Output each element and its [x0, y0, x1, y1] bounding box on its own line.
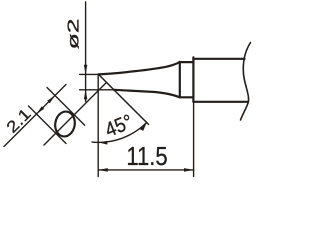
- arrow o2 top (down): [84, 65, 88, 75]
- arrow 11.5 left: [98, 168, 108, 172]
- svg-text:2.1: 2.1: [3, 105, 35, 137]
- right extension (barrel edge down): [193, 102, 195, 177]
- arrow 11.5 right: [184, 168, 194, 172]
- svg-text:45°: 45°: [102, 110, 136, 142]
- barrel bottom edge: [193, 101, 247, 103]
- svg-text:11.5: 11.5: [126, 142, 167, 171]
- arrow 2.1 lower (pointing SW, tip at tick SW): [37, 106, 45, 114]
- tick NE: [47, 88, 85, 126]
- arrow o2 bottom (up): [84, 90, 88, 100]
- arrow 2.1 upper (pointing NE, tip at tick NE): [47, 96, 55, 104]
- ellipse (bevel face): [53, 110, 76, 138]
- face axis line: [44, 82, 107, 145]
- arrow arc right (at bevel line): [140, 122, 147, 130]
- ferrule ring: [180, 62, 194, 97]
- arrow arc left (at vertical): [98, 141, 107, 145]
- tip bottom edge: [114, 90, 180, 98]
- bevel face line extended: [99, 74, 149, 124]
- tick SW: [29, 106, 67, 144]
- dim ext line top (o2): [80, 73, 99, 75]
- tip top edge: [99, 62, 180, 75]
- o2 leader vertical: [85, 2, 87, 102]
- dim ext line bottom (o2): [80, 89, 114, 91]
- barrel top edge: [193, 58, 244, 60]
- 45deg vertical extension: [97, 74, 99, 176]
- svg-text:ø2: ø2: [64, 18, 82, 49]
- 2.1 dimension line: [4, 85, 66, 147]
- 45deg arc: [92, 123, 147, 143]
- barrel left edge: [192, 57, 194, 101]
- break S-curve: [241, 43, 251, 121]
- 11.5 dimension line: [98, 169, 193, 171]
